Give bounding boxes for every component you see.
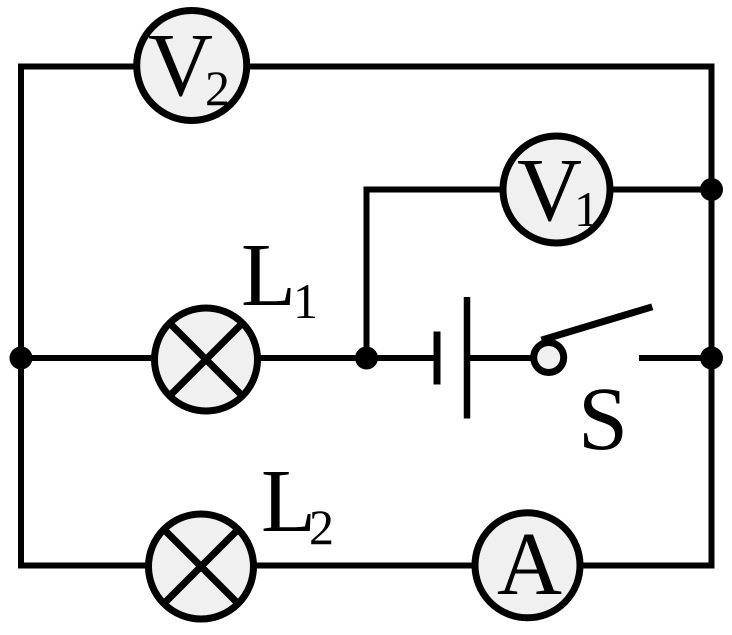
label L1 (241, 226, 318, 329)
lamp L1 (155, 308, 258, 411)
wire right (709, 64, 715, 569)
battery long plate (positive) (464, 297, 471, 419)
wire middle-left (L1 branch) (21, 355, 437, 361)
voltmeter V2 (137, 11, 247, 121)
svg-text:V: V (148, 16, 213, 115)
svg-text:1: 1 (574, 181, 599, 237)
wire battery-to-switch (467, 355, 536, 361)
switch S lever (542, 307, 653, 340)
svg-text:2: 2 (205, 60, 230, 116)
svg-text:2: 2 (309, 499, 334, 555)
svg-text:1: 1 (293, 273, 318, 329)
junction dot left (10, 347, 33, 370)
svg-text:L: L (241, 226, 296, 325)
voltmeter V1 (503, 136, 610, 243)
svg-text:S: S (578, 370, 628, 469)
wire bottom (18, 563, 715, 569)
wire top (18, 64, 715, 70)
wire switch-to-right (639, 355, 712, 361)
wire V1 branch vertical (364, 187, 370, 359)
svg-text:V: V (517, 141, 582, 240)
junction dot center (355, 347, 378, 370)
junction dot right-middle (700, 347, 723, 370)
wire V1 branch horizontal (364, 187, 712, 193)
lamp L2 (149, 514, 254, 619)
battery short plate (negative) (434, 332, 441, 385)
switch S pivot (534, 343, 564, 373)
junction dot right-upper (700, 178, 723, 201)
svg-text:A: A (497, 515, 562, 614)
wire left (18, 64, 24, 569)
label L2 (261, 452, 334, 555)
ammeter A (475, 513, 580, 618)
svg-text:L: L (261, 452, 316, 551)
